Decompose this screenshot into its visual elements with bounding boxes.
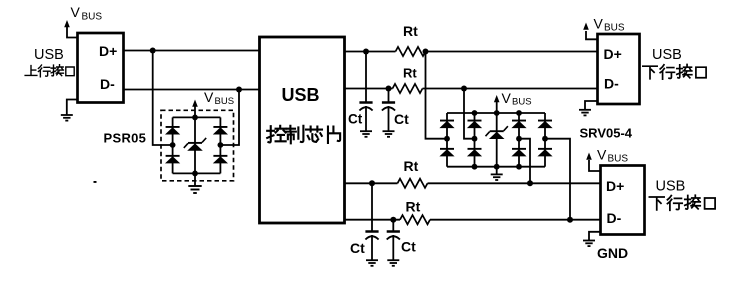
label: 控制芯片 (control chip) [267, 126, 340, 144]
svg-text:V: V [502, 90, 512, 106]
label: 下行接口 (upper downstream) [643, 64, 706, 79]
svg-text:V: V [204, 89, 214, 105]
resistor Rt2 [393, 84, 423, 93]
wire: upstream D+ to controller [124, 50, 261, 52]
label Ct3 [350, 240, 365, 256]
node: Rt1 right / SRV05 branch [423, 49, 429, 55]
svg-text:SRV05-4: SRV05-4 [580, 126, 633, 141]
diode D12 (SRV05 col4 lower) [537, 148, 552, 157]
connector: USB downstream port box (lower) [601, 166, 645, 235]
diode D4 (PSR05 right lower) [213, 155, 228, 164]
svg-text:BUS: BUS [608, 154, 629, 165]
PSR05 right branch wire [219, 117, 221, 173]
node: PSR05 top center [192, 115, 198, 121]
node: SRV05 col3 mid [516, 136, 522, 142]
node: lower D+ / SRV05 junction [527, 180, 533, 186]
label: 下行接口 (lower downstream) [649, 195, 715, 210]
label: USB (controller) [282, 85, 320, 105]
TVS zener (PSR05 center) [184, 138, 206, 151]
node: D+ / PSR05 junction [150, 48, 156, 54]
ground (lower downstream port) [583, 232, 602, 246]
label PSR05 [104, 131, 147, 146]
svg-text:BUS: BUS [512, 97, 532, 108]
wire: SRV05 pin3 down to lower D+ line [519, 139, 530, 184]
capacitor Ct2 [382, 89, 395, 132]
node: SRV05 bottom rail col2 [472, 164, 478, 170]
svg-text:Rt: Rt [404, 158, 419, 174]
node: Ct3 tap [369, 180, 375, 186]
node: Ct4 tap [390, 217, 396, 223]
ground (upstream port) [61, 100, 79, 121]
PSR05 center branch wire [194, 117, 196, 173]
diode D2 (PSR05 left lower) [165, 155, 180, 164]
ground (upper downstream port) [579, 101, 599, 115]
SRV05-4 branch 4 wire [544, 113, 546, 167]
svg-text:Ct: Ct [350, 240, 365, 256]
svg-text:D+: D+ [604, 46, 622, 62]
pin label D+ (lower downstream) [606, 178, 624, 194]
PSR05 bottom rail wire [173, 172, 221, 174]
SRV05-4 bottom rail wire [447, 166, 545, 168]
ground (Ct2) [383, 131, 395, 137]
VBUS power arrow (upper downstream) [583, 23, 598, 40]
label Rt1 [403, 23, 418, 39]
svg-text:BUS: BUS [604, 22, 625, 33]
wire: upstream D- to controller [124, 89, 261, 91]
diode D3 (PSR05 right upper) [213, 126, 228, 135]
diode D6 (SRV05 col1 lower) [439, 148, 454, 157]
capacitor Ct1 [359, 52, 372, 132]
ground (Ct3) [366, 260, 378, 266]
label VBUS (upper downstream) [594, 15, 625, 33]
resistor Rt1 [396, 47, 426, 56]
label: 上行接口 (upstream port) [25, 65, 74, 77]
diode D5 (SRV05 col1 upper) [439, 120, 454, 129]
ground (SRV05) [491, 167, 503, 180]
resistor Rt3 [398, 179, 428, 188]
svg-text:Ct: Ct [394, 111, 409, 127]
label VBUS (SRV05) [502, 90, 532, 108]
VBUS power arrow (SRV05) [494, 95, 500, 113]
svg-text:BUS: BUS [215, 96, 235, 107]
connector: USB downstream port box (upper) [598, 34, 640, 104]
svg-text:Ct: Ct [348, 112, 363, 127]
SRV05-4 center branch wire [496, 113, 498, 167]
node: SRV05 bottom rail col3 [516, 164, 522, 170]
pin label D+ (upstream) [99, 43, 117, 59]
svg-text:D-: D- [604, 75, 619, 91]
svg-text:USB: USB [656, 179, 686, 195]
node: Ct1 tap [363, 49, 369, 55]
node: PSR05 bottom center [192, 171, 198, 177]
wire: controller D- out (upper) [345, 88, 599, 90]
wire: controller D+ out (lower) [345, 182, 602, 184]
label Rt3 [404, 158, 419, 174]
connector: USB upstream port box [78, 33, 124, 103]
pin label D- (upper downstream) [604, 75, 619, 91]
svg-text:Ct: Ct [401, 239, 416, 255]
SRV05-4 branch 3 wire [518, 113, 520, 167]
node: D- line / SRV05 branch [461, 86, 467, 92]
ground (Ct4) [387, 260, 399, 266]
label Ct1 [348, 112, 363, 127]
node: SRV05 col2 mid [472, 136, 478, 142]
diode D9 (SRV05 col3 upper) [511, 120, 526, 129]
label Ct4 [401, 239, 416, 255]
svg-text:V: V [594, 15, 604, 31]
diode D8 (SRV05 col2 lower) [467, 148, 482, 157]
wire: D- node down to SRV05 pin 2 [464, 89, 475, 139]
svg-text:USB: USB [652, 47, 682, 63]
diode D11 (SRV05 col4 upper) [537, 120, 552, 129]
node: SRV05 top rail col3 [516, 110, 522, 116]
svg-text:D-: D- [100, 76, 115, 92]
svg-text:PSR05: PSR05 [104, 131, 147, 146]
label: USB (upstream) [34, 47, 64, 63]
node: SRV05 bottom rail center [494, 164, 500, 170]
capacitor Ct4 [387, 220, 400, 260]
wire: Rt1 node down to SRV05 pin 1 [426, 52, 448, 139]
svg-text:USB: USB [34, 47, 64, 63]
svg-text:V: V [597, 147, 607, 163]
label: USB (upper downstream) [652, 47, 682, 63]
TVS zener (SRV05 center) [486, 126, 508, 139]
SRV05-4 branch 1 wire [446, 113, 448, 167]
PSR05 top rail wire [173, 116, 221, 118]
pin label D- (upstream) [100, 76, 115, 92]
node: D- / PSR05 junction [236, 87, 242, 93]
node: SRV05 top rail center [494, 110, 500, 116]
svg-text:D+: D+ [99, 43, 117, 59]
diode D1 (PSR05 left upper) [165, 126, 180, 135]
ground (PSR05) [188, 173, 201, 193]
label Ct2 [394, 111, 409, 127]
svg-text:BUS: BUS [82, 12, 103, 23]
VBUS power arrow (PSR05) [192, 100, 198, 118]
node: Ct2 tap [386, 86, 392, 92]
svg-text:GND: GND [597, 245, 628, 261]
diode D10 (SRV05 col3 lower) [511, 148, 526, 157]
wire: D- node down to PSR05 right pin [220, 90, 239, 146]
node: lower D- / SRV05 junction [567, 217, 573, 223]
svg-text:Rt: Rt [406, 199, 421, 215]
svg-text:Rt: Rt [403, 66, 417, 81]
stray mark (period) [94, 181, 97, 183]
TVS array PSR05 dashed outline [161, 110, 234, 181]
diode D7 (SRV05 col2 upper) [467, 120, 482, 129]
node: PSR05 right mid [218, 142, 224, 148]
label Rt4 [406, 199, 421, 215]
wire: SRV05 pin4 down to lower D- line [545, 139, 570, 220]
wire: controller D- out (lower) [345, 219, 602, 221]
node: PSR05 left mid [170, 142, 176, 148]
node: SRV05 col4 mid [542, 136, 548, 142]
label SRV05-4 [580, 126, 633, 141]
label VBUS (PSR05) [204, 89, 234, 107]
label Rt2 [403, 66, 417, 81]
VBUS power arrow (upstream) [64, 20, 78, 38]
svg-text:Rt: Rt [403, 23, 418, 39]
resistor Rt4 [400, 215, 430, 224]
node: SRV05 col1 mid [444, 136, 450, 142]
pin label D- (lower downstream) [607, 210, 622, 226]
PSR05 left branch wire [172, 117, 174, 173]
label GND [597, 245, 628, 261]
label VBUS (upstream) [71, 4, 103, 23]
SRV05-4 top rail wire [447, 112, 545, 114]
IC U1: USB controller box [260, 37, 345, 223]
pin label D+ (upper downstream) [604, 46, 622, 62]
SRV05-4 branch 2 wire [474, 113, 476, 167]
ground (Ct1) [360, 131, 372, 137]
svg-text:D+: D+ [606, 178, 624, 194]
label: USB (lower downstream) [656, 179, 686, 195]
svg-text:D-: D- [607, 210, 622, 226]
label VBUS (lower downstream) [597, 147, 628, 165]
svg-text:V: V [71, 4, 81, 20]
svg-text:USB: USB [282, 85, 320, 105]
node: SRV05 top rail col2 [472, 110, 478, 116]
capacitor Ct3 [365, 183, 378, 260]
VBUS power arrow (lower downstream) [586, 153, 601, 172]
wire: controller D+ out (upper) [345, 51, 599, 53]
wire: D+ node down to PSR05 left pin [153, 51, 173, 146]
